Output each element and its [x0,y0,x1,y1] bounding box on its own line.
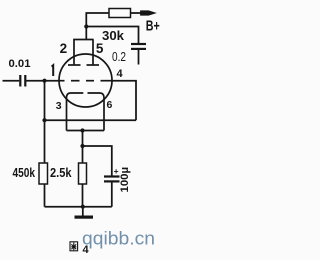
wire grid bus [45,119,137,121]
resistor 30k (plate load) [109,9,131,18]
node grid input junction [42,79,46,83]
plate right (T-bar) [87,40,100,66]
wire 30k to B+ [131,12,142,14]
svg-text:6: 6 [107,99,113,111]
svg-text:0.2: 0.2 [112,49,126,64]
wire plate node riser [85,27,87,40]
wire 450k to ground [44,184,46,207]
wire cap to grid node [26,80,59,82]
svg-text:3: 3 [56,100,62,112]
svg-text:qqibb.cn: qqibb.cn [82,229,155,249]
node cathode branch junction [80,144,84,148]
wire output (open end) [138,50,140,65]
wire 2.5k to ground [82,184,84,207]
svg-text:+: + [114,166,119,176]
svg-text:100µ: 100µ [119,167,131,193]
svg-text:450k: 450k [13,166,36,180]
svg-text:5: 5 [96,41,104,56]
wire grid vertical [44,81,46,163]
wire cathode node to 2.5k [82,146,84,163]
wire plates tie [73,39,93,41]
svg-text:B+: B+ [146,18,160,34]
pin 1 label [52,65,54,76]
wire pin4 loop [112,81,136,121]
node grid bus junction [42,118,46,122]
grid (dashed line, pins 1 and 4) [59,80,112,82]
B+ terminal arrow [141,11,156,15]
svg-text:30k: 30k [102,29,124,43]
wire cathode tie [67,130,105,132]
caption figure 4 [70,242,90,256]
wire input left [3,80,20,82]
wire cathode node down [82,131,84,147]
cathode right [88,93,105,131]
node cathode tie junction [80,128,84,132]
ground [75,216,94,219]
svg-text:2: 2 [60,41,68,56]
resistor 2.5k (cathode bias) [79,163,87,184]
cathode left [67,93,84,131]
svg-text:0.01: 0.01 [9,58,31,70]
wire plate node to 0.2 cap [86,27,138,44]
svg-text:2.5k: 2.5k [50,166,72,180]
svg-text:4: 4 [117,68,124,80]
wire 100u to ground [111,182,113,207]
node plate junction [84,24,88,28]
node ground junction [81,205,85,209]
wire ground stub [82,207,84,216]
capacitor 0.2 (output coupling) [131,44,146,49]
resistor 450k (grid leak) [39,163,48,184]
capacitor 100u (cathode bypass) [104,177,120,182]
tube envelope [59,54,112,107]
plate left (T-bar) [68,40,81,66]
wire ground bus [45,206,112,208]
capacitor 0.01 (input coupling) [20,75,25,87]
wire plate node to 30k [86,13,109,27]
wire branch to 100u [83,146,112,176]
